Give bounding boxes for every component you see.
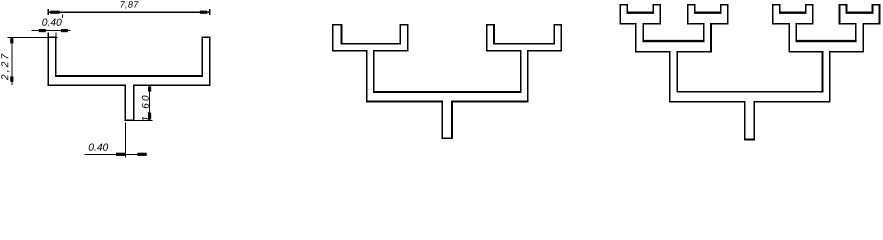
arrowhead 0.40 stem left: [116, 153, 125, 156]
arrowhead 2,27 top: [10, 38, 13, 43]
arrowhead 1,60 top: [148, 86, 151, 91]
dimension 7,87 extension nub left: [47, 9, 49, 15]
dimension 0.40 (line width) line: [31, 30, 70, 32]
label 0.40 (stem width): [89, 144, 109, 151]
label 1,60: [142, 96, 150, 122]
network 3 element bar 1 top edge: [627, 11, 655, 13]
feed network 2 (1x4 divider) outline: [333, 25, 562, 139]
arrowhead 1,60 bottom: [148, 113, 151, 120]
network 3 secondary bar 2 top edge: [796, 40, 857, 42]
network 3 secondary bar 1 top edge: [642, 40, 704, 42]
label 7,87: [121, 1, 139, 9]
arrowhead 0.40 stem right: [137, 153, 146, 156]
dimension 0.40 extension nub right: [55, 32, 57, 36]
dimension 0.40 (stem width) line: [84, 153, 147, 155]
feed network 3 (1x8 divider) outline: [620, 5, 879, 140]
dimension 0.40 (stem) extension line: [124, 123, 126, 158]
network 3 element bar 4 top edge: [846, 11, 873, 13]
arrowhead 2,27 bottom: [10, 76, 13, 81]
dimension 0.40 extension nub left: [47, 32, 49, 36]
dimension 2,27 extension line top: [7, 36, 57, 38]
network 3 element bar 2 top edge: [694, 11, 722, 13]
arrowhead 0.40 left: [39, 29, 46, 32]
dimension 2,27 line: [11, 37, 13, 85]
arrowhead 0.40 right: [61, 29, 68, 32]
dimension 1,60 line: [149, 85, 151, 120]
label 2,27: [1, 54, 9, 80]
dimension 7,87 extension nub right: [209, 9, 211, 15]
arrowhead 7,87 left: [50, 11, 59, 14]
dimension 1,60 extension line bottom: [135, 119, 153, 121]
arrowhead 7,87 right: [200, 11, 207, 14]
dimension 7,87 line: [48, 11, 210, 13]
label 0.40 (line width): [42, 19, 62, 26]
dimension 0.40 extension line right: [61, 15, 63, 18]
network 3 element bar 3 top edge: [779, 11, 807, 13]
feed network 1 (1x2 divider) outline: [48, 37, 210, 120]
